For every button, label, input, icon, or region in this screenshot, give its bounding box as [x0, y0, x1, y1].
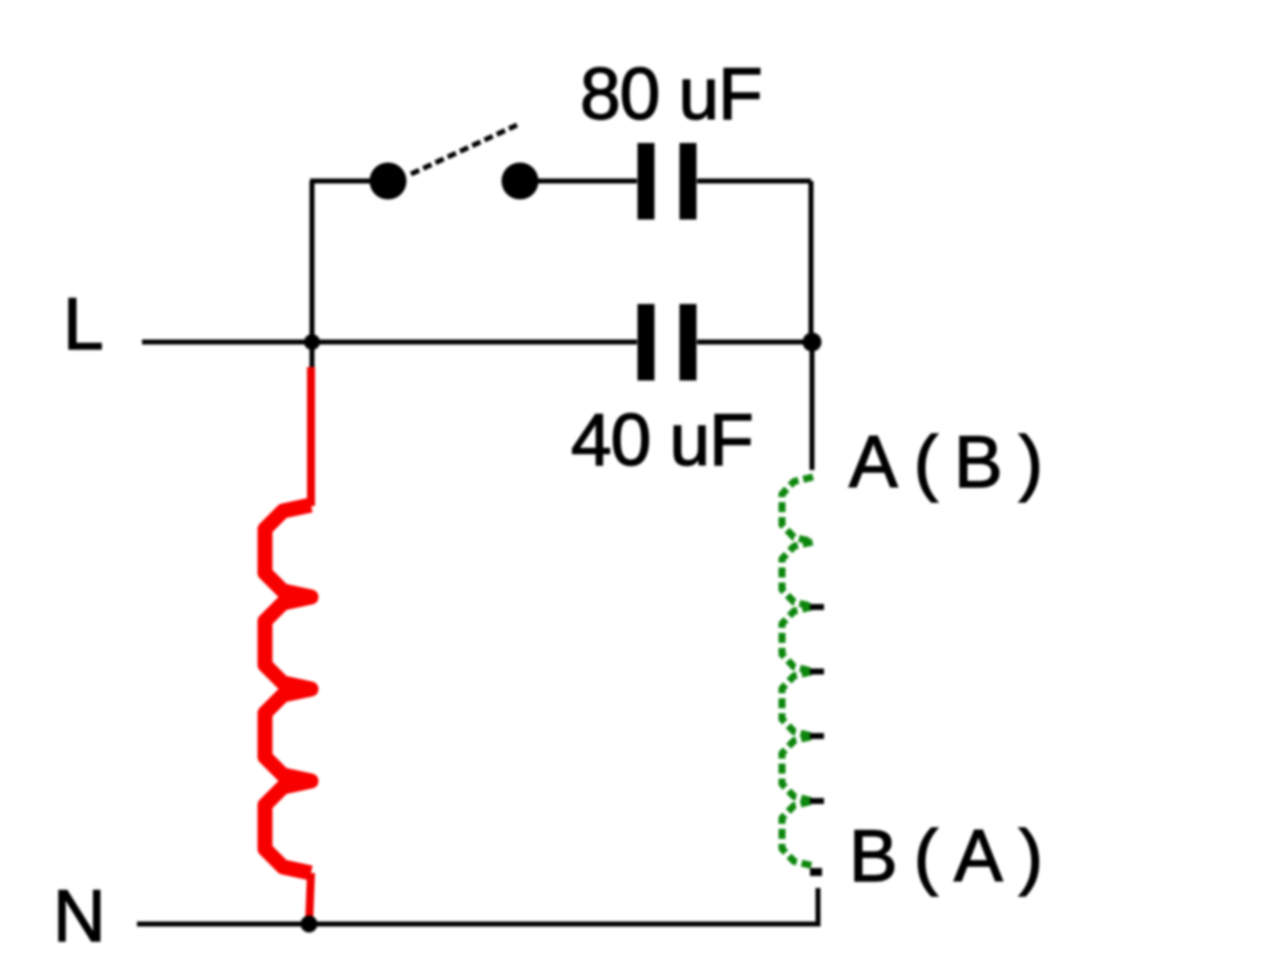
- coil end tick: [810, 868, 822, 876]
- svg-text:A(B): A(B): [849, 422, 1059, 503]
- winding aux (green dashed) coil: [782, 477, 813, 866]
- capacitor C1 80uF left plate: [638, 143, 655, 220]
- svg-text:N: N: [53, 876, 106, 957]
- svg-text:40 uF: 40 uF: [571, 400, 753, 481]
- wire 40uF right to node: [697, 340, 812, 345]
- cusp tick 3: [810, 733, 824, 739]
- capacitor C1 80uF right plate: [680, 143, 697, 220]
- wire 80uF to right corner: [697, 179, 811, 184]
- svg-text:L: L: [63, 284, 104, 365]
- cusp tick 1: [810, 604, 824, 610]
- winding main (red) top lead: [307, 367, 315, 506]
- svg-text:B(A): B(A): [849, 816, 1059, 897]
- wire B lead corner: [137, 888, 818, 924]
- winding main (red) bottom lead: [309, 873, 311, 926]
- wire top to switch: [310, 179, 388, 184]
- wire node A down: [810, 342, 815, 470]
- svg-text:80 uF: 80 uF: [580, 54, 762, 135]
- capacitor C2 40uF right plate: [680, 304, 697, 381]
- switch throw dot: [502, 163, 539, 200]
- node N junction: [301, 916, 318, 933]
- node L junction: [304, 334, 320, 350]
- wire L lead: [142, 340, 637, 345]
- wire right riser: [809, 181, 814, 342]
- node right junction: [803, 333, 822, 352]
- switch blade (dashed): [411, 125, 517, 174]
- cusp tick 4: [810, 798, 824, 804]
- cusp tick 2: [810, 669, 824, 675]
- winding main (red) coil: [265, 505, 311, 873]
- capacitor C2 40uF left plate: [638, 304, 655, 381]
- wire switch to 80uF: [520, 179, 637, 184]
- switch pole dot: [370, 163, 407, 200]
- wire left riser: [310, 181, 315, 367]
